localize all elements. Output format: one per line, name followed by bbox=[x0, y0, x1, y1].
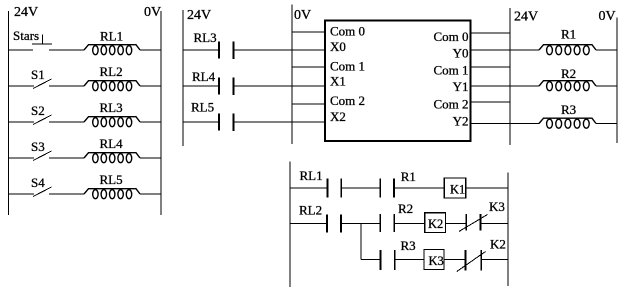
svg-text:Com 0: Com 0 bbox=[330, 24, 365, 39]
svg-text:Com 2: Com 2 bbox=[330, 93, 365, 108]
svg-text:0V: 0V bbox=[599, 9, 616, 24]
svg-text:Y1: Y1 bbox=[453, 79, 469, 94]
svg-text:0V: 0V bbox=[294, 8, 311, 23]
svg-text:Stars: Stars bbox=[13, 28, 39, 43]
svg-text:K2: K2 bbox=[428, 217, 443, 231]
svg-text:S2: S2 bbox=[31, 103, 45, 118]
svg-text:S4: S4 bbox=[31, 175, 45, 190]
svg-text:RL3: RL3 bbox=[194, 30, 217, 45]
svg-text:R2: R2 bbox=[561, 66, 576, 81]
svg-text:Com 0: Com 0 bbox=[433, 29, 468, 44]
svg-text:K3: K3 bbox=[489, 199, 505, 214]
svg-text:RL3: RL3 bbox=[100, 100, 123, 115]
svg-text:Com 1: Com 1 bbox=[433, 63, 468, 78]
svg-text:X2: X2 bbox=[330, 109, 346, 124]
svg-text:RL5: RL5 bbox=[100, 172, 123, 187]
svg-text:K1: K1 bbox=[450, 182, 465, 196]
svg-text:RL5: RL5 bbox=[191, 100, 214, 115]
svg-text:S1: S1 bbox=[31, 67, 45, 82]
svg-text:R2: R2 bbox=[398, 201, 413, 216]
svg-text:24V: 24V bbox=[187, 8, 211, 23]
svg-text:Com 1: Com 1 bbox=[330, 58, 365, 73]
svg-text:Y0: Y0 bbox=[453, 45, 469, 60]
svg-text:RL4: RL4 bbox=[100, 136, 124, 151]
svg-text:24V: 24V bbox=[14, 5, 38, 20]
svg-text:R1: R1 bbox=[561, 27, 576, 42]
svg-text:S3: S3 bbox=[31, 139, 45, 154]
svg-text:R1: R1 bbox=[401, 169, 416, 184]
svg-text:RL2: RL2 bbox=[100, 64, 123, 79]
svg-text:0V: 0V bbox=[144, 5, 161, 20]
svg-text:X1: X1 bbox=[330, 74, 346, 89]
svg-text:RL1: RL1 bbox=[100, 28, 123, 43]
svg-text:K3: K3 bbox=[429, 254, 444, 268]
svg-text:K2: K2 bbox=[490, 237, 506, 252]
svg-text:R3: R3 bbox=[401, 238, 416, 253]
svg-text:24V: 24V bbox=[514, 10, 538, 25]
svg-text:Com 2: Com 2 bbox=[433, 97, 468, 112]
svg-text:RL4: RL4 bbox=[192, 69, 216, 84]
svg-text:Y2: Y2 bbox=[453, 114, 469, 129]
svg-text:RL2: RL2 bbox=[299, 203, 322, 218]
svg-text:R3: R3 bbox=[561, 102, 576, 117]
svg-text:RL1: RL1 bbox=[300, 168, 323, 183]
svg-text:X0: X0 bbox=[330, 39, 346, 54]
